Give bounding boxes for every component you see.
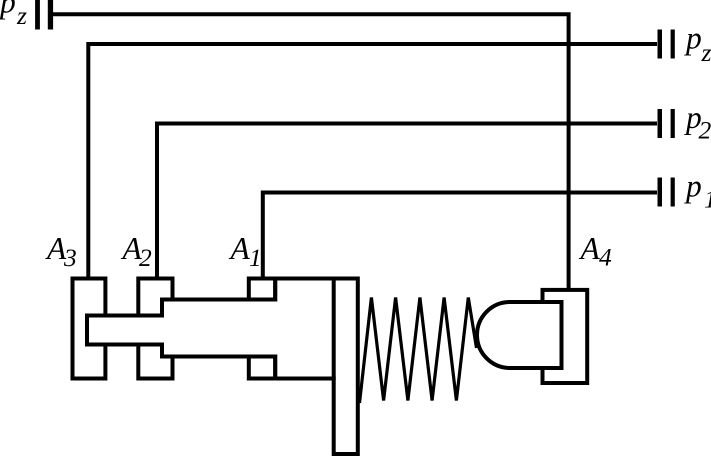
svg-text:3: 3 [63,243,77,272]
svg-text:A: A [579,231,601,266]
cylinder A3 body [73,279,106,379]
wire from A3 cylinder up and right to p_z port (right) [88,44,657,279]
port p_z (left) double-bar symbol [35,0,53,30]
port p_z (right) double-bar symbol [658,30,675,59]
svg-text:2: 2 [139,243,152,272]
svg-text:z: z [16,1,27,30]
svg-text:4: 4 [599,243,612,272]
svg-text:1: 1 [704,185,711,214]
cylinder A1 upper gland block [249,279,275,300]
dome-headed follower inside A4 [477,302,562,368]
cylinder A1 lower gland block [249,357,275,379]
wire from A1 cylinder up and right to p_1 port [263,193,657,280]
svg-text:1: 1 [249,243,262,272]
stepped piston with end plate (rod through A3/A2, middle land, large land, flange plate) [87,279,358,455]
svg-text:2: 2 [699,116,711,145]
piston plate left edge (full height) [332,279,336,381]
svg-text:z: z [701,38,711,67]
svg-text:A: A [229,231,251,266]
wire from left p_z port across top and down to A4 cylinder [53,14,569,290]
port p_1 double-bar symbol [658,178,675,207]
svg-text:p: p [684,169,702,204]
svg-text:p: p [0,0,16,20]
wire from A2 cylinder up and right to p_2 port [157,124,657,280]
cylinder A2 body [138,279,172,379]
svg-text:p: p [684,21,702,56]
port p_2 double-bar symbol [658,109,675,138]
spring between piston plate and dome follower [360,298,477,404]
cylinder A4 body (bracket) [543,290,588,383]
